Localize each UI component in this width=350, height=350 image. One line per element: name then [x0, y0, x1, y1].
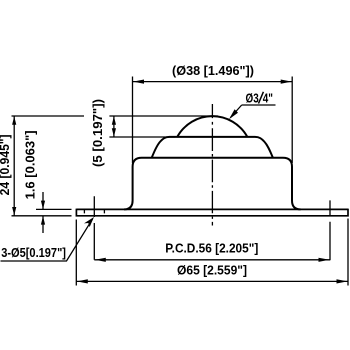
dim 5: dimension line: [113, 116, 115, 137]
dim O65: extension lines: [76, 219, 348, 286]
left hole centerline: [93, 196, 95, 259]
ball leader arrowhead: [229, 109, 238, 119]
dim O65: arrowheads: [77, 279, 348, 283]
dim PCD56: arrowheads: [95, 258, 330, 262]
label 3-O5 arrowhead: [84, 217, 94, 227]
label 3-O5 leader: [1, 219, 93, 261]
svg-text:24 [0.945"]: 24 [0.945"]: [0, 134, 12, 195]
svg-text:Ø3: Ø3: [246, 90, 259, 105]
dim 5: arrowheads: [112, 116, 116, 136]
dim O38: arrowheads: [133, 80, 292, 84]
dim 24: dimension line: [13, 116, 15, 216]
dim O65: dimension line: [76, 280, 348, 282]
svg-text:(Ø38 [1.496"]): (Ø38 [1.496"]): [172, 63, 254, 78]
ball leader O3/4: [231, 105, 276, 118]
dim 1.6: arrowheads: [41, 201, 45, 225]
housing body: [124, 158, 301, 210]
svg-text:1.6 [0.063"]: 1.6 [0.063"]: [23, 130, 38, 199]
dim O38: dimension line: [133, 81, 293, 83]
dim PCD56: dimension line: [94, 259, 330, 261]
svg-text:(5 [0.197"]): (5 [0.197"]): [90, 99, 105, 167]
svg-text:Ø65 [2.559"]: Ø65 [2.559"]: [177, 262, 247, 277]
dim 24: arrowheads: [12, 116, 16, 215]
svg-text:4": 4": [263, 90, 273, 105]
cap (upper housing): [152, 137, 273, 158]
dim 5: extension lines: [12, 116, 219, 137]
svg-text:P.C.D.56 [2.205"]: P.C.D.56 [2.205"]: [165, 240, 258, 255]
dim 1.6: dimension line segments: [42, 192, 44, 233]
right hole centerline: [329, 200, 331, 260]
hole edge ticks: [84, 210, 104, 214]
dim O38: extension lines: [133, 77, 293, 164]
dim 1.6: extension lines: [12, 209, 72, 215]
svg-text:3-Ø5[0.197"]: 3-Ø5[0.197"]: [1, 245, 66, 260]
ball: [177, 116, 247, 137]
flange plate: [76, 209, 348, 217]
main vertical centerline: [211, 104, 213, 226]
